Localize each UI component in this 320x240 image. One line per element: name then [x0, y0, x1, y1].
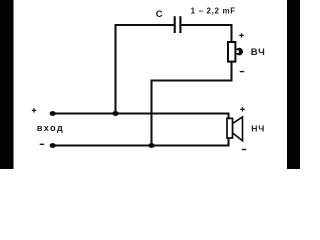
svg-text:C: C	[156, 9, 163, 20]
svg-text:вход: вход	[37, 123, 64, 133]
svg-text:1 – 2,2 mF: 1 – 2,2 mF	[191, 6, 236, 15]
svg-text:НЧ: НЧ	[251, 124, 265, 134]
svg-text:ВЧ: ВЧ	[251, 47, 266, 58]
